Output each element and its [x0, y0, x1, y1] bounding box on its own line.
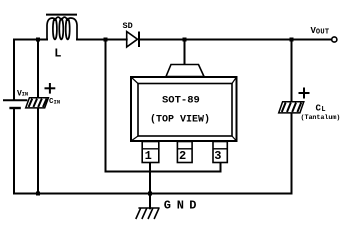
battery VIN: short negative plate: [9, 107, 20, 109]
pin 1: [142, 142, 159, 163]
svg-text:(TOP VIEW): (TOP VIEW): [150, 114, 210, 126]
battery VIN: long positive plate: [3, 99, 27, 101]
node: junction dot CIN bottom: [36, 192, 40, 196]
wire: tab lead up to VOUT rail: [184, 40, 186, 65]
wire: diode cathode to VOUT terminal: [140, 39, 332, 41]
wire: Lx node down and over to pin 3: [106, 40, 221, 172]
svg-text:D: D: [189, 198, 196, 212]
wire: CIN branch vertical: [37, 40, 39, 194]
svg-text:VIN: VIN: [17, 89, 28, 98]
IC U1 SOT-89 package body: [131, 77, 237, 141]
svg-text:CL: CL: [316, 104, 326, 115]
plus sign for CIN: [45, 83, 56, 94]
wire: pin 1 down to ground rail and ground stub: [149, 163, 151, 209]
svg-text:SD: SD: [123, 21, 133, 31]
plus sign for CL: [299, 88, 310, 99]
wire: CL branch vertical: [291, 40, 293, 194]
capacitor CL (polarized, hatched): [279, 102, 304, 113]
svg-text:(Tantalum): (Tantalum): [301, 114, 341, 122]
node: junction dot CL top: [290, 38, 294, 42]
node: junction dot Lx: [104, 38, 108, 42]
svg-text:SOT-89: SOT-89: [162, 95, 200, 107]
node: junction dot CIN top: [36, 38, 40, 42]
pin 3: [213, 142, 227, 163]
pin 2: [177, 142, 192, 163]
svg-text:3: 3: [214, 149, 221, 163]
inductor L: [46, 15, 77, 40]
svg-text:2: 2: [179, 149, 186, 163]
svg-text:N: N: [177, 198, 184, 212]
ground symbol: [136, 208, 160, 219]
capacitor CIN (polarized, hatched): [26, 98, 49, 108]
node: junction dot ground: [148, 192, 152, 196]
svg-text:1: 1: [145, 149, 152, 163]
VOUT terminal circle: [332, 37, 337, 42]
diode SD: [127, 32, 139, 48]
svg-text:G: G: [164, 198, 171, 212]
wire: battery negative lead down to bottom rail: [13, 108, 15, 194]
svg-text:CIN: CIN: [49, 98, 60, 106]
wire: inductor to diode anode: [77, 39, 127, 41]
node: junction dot tab: [183, 38, 187, 42]
svg-text:VOUT: VOUT: [311, 26, 330, 37]
wire: top rail from battery corner to inductor: [14, 40, 47, 101]
IC tab (pin 2 tab): [166, 65, 204, 77]
wire: bottom ground rail: [14, 193, 292, 195]
svg-text:L: L: [54, 47, 61, 61]
